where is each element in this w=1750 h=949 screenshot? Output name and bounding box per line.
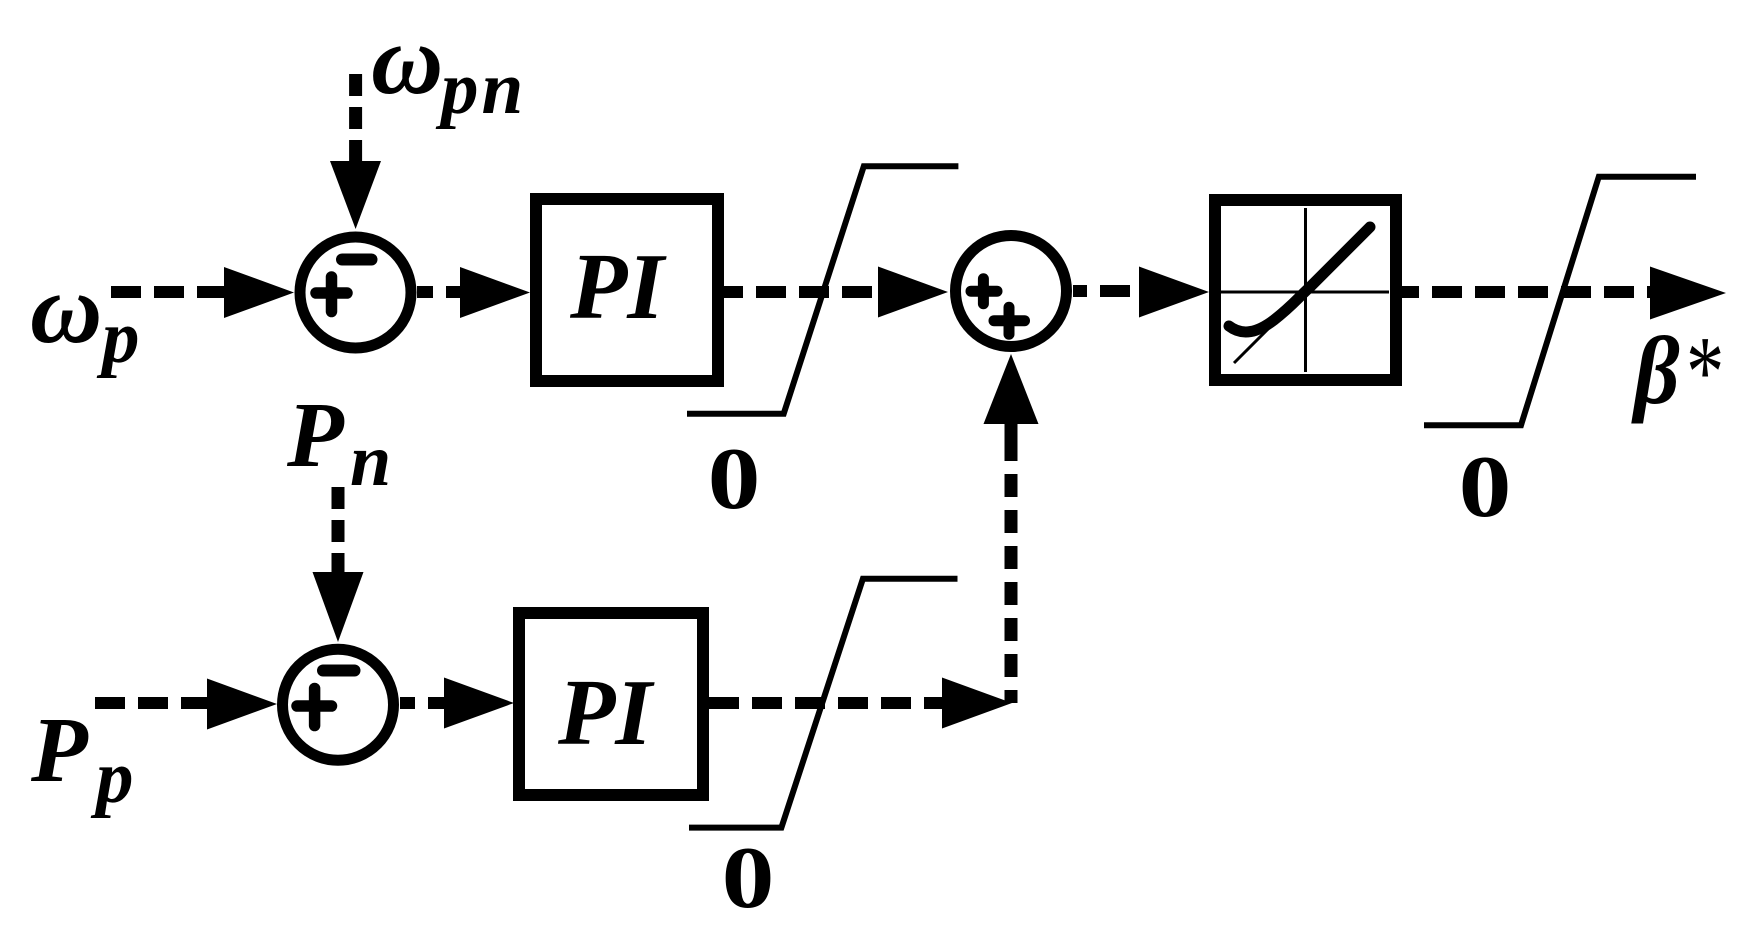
svg-text:*: * xyxy=(1686,315,1724,428)
svg-text:P: P xyxy=(286,384,345,487)
svg-text:p: p xyxy=(96,296,140,379)
svg-text:n: n xyxy=(350,420,391,502)
svg-text:β: β xyxy=(1631,318,1680,425)
svg-text:0: 0 xyxy=(722,829,775,927)
svg-text:0: 0 xyxy=(1459,438,1512,536)
svg-text:pn: pn xyxy=(435,47,526,130)
svg-text:ω: ω xyxy=(371,4,443,115)
svg-text:0: 0 xyxy=(708,430,761,528)
svg-text:P: P xyxy=(30,699,89,802)
svg-text:ω: ω xyxy=(30,253,102,364)
svg-text:PI: PI xyxy=(569,235,667,339)
svg-text:PI: PI xyxy=(557,661,655,765)
svg-text:p: p xyxy=(90,736,134,819)
